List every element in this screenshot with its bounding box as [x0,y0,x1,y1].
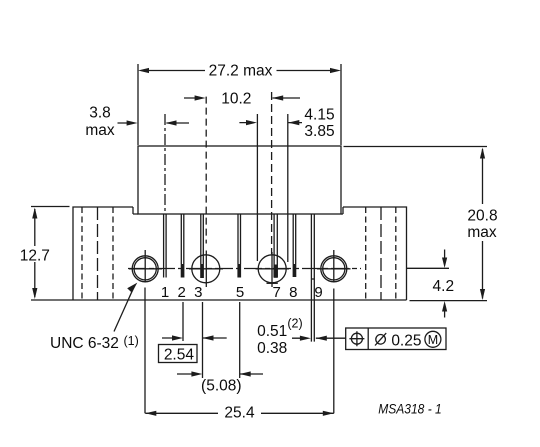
mounting hole H4 [321,250,347,282]
arrow 12.7 bottom (points down) [32,288,37,299]
arrow 5.08 left (points right) [191,371,202,376]
arrow 0.51 left (points right) [300,336,311,341]
dim 4.2 lower arrow tail [444,307,446,318]
arrow 4.2 bottom (points up) [442,301,447,312]
package body outline [138,146,341,214]
svg-text:7: 7 [273,284,281,301]
arrow 2.54 left (points right) [172,335,183,340]
svg-text:(5.08): (5.08) [201,378,242,395]
dim 2.54 / 5.08 extension pin3 [202,302,204,378]
hole H4 centerline extension down [333,289,335,414]
pin 3 [200,214,204,278]
hidden line left flange a [81,207,83,300]
basic dim box 2.54 [159,345,198,363]
crosshair arms H1-H4 [129,268,351,270]
arrow 25.4 right [323,411,334,416]
pin 9 (long leads) [311,214,314,342]
svg-text:0.51: 0.51 [257,323,287,340]
arrow 20.8 bottom (points down) [480,289,485,300]
svg-text:5: 5 [236,284,244,301]
svg-text:1: 1 [161,284,169,301]
dim 2.54 arrow lines [162,337,227,339]
wide lead edge right (4.15 ref) [287,114,289,262]
dim 5.08 extension pin5 [239,302,241,378]
svg-text:10.2: 10.2 [221,90,251,107]
dim 10.2 arrow lines [184,97,300,99]
arrow 10.2 left (points right) [195,95,206,100]
dim 12.7 line [34,209,36,297]
svg-text:3.8: 3.8 [89,104,111,121]
arrow 27.2 left [138,68,149,73]
arrow 4.15 right (points left) [288,120,299,125]
svg-text:0.38: 0.38 [257,340,287,357]
pin 1 centerline (dash-dot) [164,114,166,214]
pin 8 [293,214,297,277]
hidden line right flange c [395,207,397,300]
svg-text:max: max [85,122,115,139]
arrow 2.54 right (points left) [203,335,214,340]
feature control frame [346,328,446,350]
svg-text:12.7: 12.7 [20,248,50,265]
mounting hole H2 [192,251,220,288]
flange (tab) outline [73,207,407,300]
hidden line left flange b [97,207,99,300]
svg-text:UNC 6-32: UNC 6-32 [50,335,119,352]
svg-text:2: 2 [178,284,186,301]
arrow 4.15 left (points right) [246,120,257,125]
hidden line left flange c [112,207,114,300]
svg-text:25.4: 25.4 [224,404,255,421]
svg-text:4.15: 4.15 [304,107,334,124]
arrowheads [32,68,485,416]
pin numbers [161,284,323,301]
hole H2 centerline above (dashed) [205,97,207,244]
arrow 3.8 right (points left) [166,120,177,125]
mounting hole H3 [258,252,286,287]
svg-text:(1): (1) [124,334,139,348]
svg-text:8: 8 [289,284,297,301]
hole H1 centerline extension down [144,288,146,414]
arrow 12.7 top (points up) [32,208,37,219]
dim 3.8 arrow lines [118,122,190,124]
arrow 27.2 right [330,68,341,73]
flange bottom edge + left extension [31,299,407,301]
svg-text:3: 3 [194,284,202,301]
svg-text:4.2: 4.2 [433,278,455,295]
arrow 0.51 right (points left) [316,336,327,341]
pin 1 [164,214,167,278]
dim 5.08 arrow lines [177,373,263,375]
svg-text:3.85: 3.85 [304,123,334,140]
leader line UNC 6-32 [114,286,135,332]
pin 5 [237,214,241,278]
arrow 3.8 left (points right) [127,120,138,125]
flange bottom right extension line [410,300,488,302]
dim 27.2 extension lines [138,64,341,145]
dim 20.8 line [482,149,484,299]
svg-text:2.54: 2.54 [164,347,195,364]
svg-text:max: max [467,224,497,241]
svg-text:(2): (2) [287,316,302,330]
hole H3 centerline above (dashed) [271,92,273,254]
arrow 25.4 left [145,411,156,416]
wide lead edge left (4.15 ref) [256,114,258,261]
pin 7 [274,214,278,278]
dim 2.54 extension pin2 [182,302,184,341]
svg-text:MSA318 - 1: MSA318 - 1 [378,400,442,416]
pin 2 [181,214,185,278]
arrow 10.2 right (points left) [272,95,283,100]
mounting hole H1 [132,250,158,282]
hidden line right flange b [380,207,382,300]
dim 4.15/3.85 arrow lines [239,122,302,124]
dim 25.4 line [145,412,333,414]
dim 27.2 line [142,70,338,72]
svg-text:9: 9 [314,284,322,301]
dim 0.51/0.38 arrow lines [292,337,346,339]
arrow 5.08 right (points left) [240,371,251,376]
dim 4.2 extension line [407,267,450,269]
svg-text:M: M [428,333,438,347]
arrow UNC leader [127,283,137,293]
svg-text:0.25: 0.25 [391,333,421,350]
dim 20.8 top extension [344,146,488,148]
arrow 4.2 top (points down) [442,258,447,269]
hidden line right flange a [365,207,367,300]
arrow 20.8 top (points up) [480,148,485,159]
horizontal centerline through holes [128,268,361,270]
dim 4.2 upper arrow tail [444,250,446,262]
svg-text:20.8: 20.8 [467,207,497,224]
dim 12.7 extensions [31,206,70,208]
svg-text:27.2 max: 27.2 max [209,63,273,80]
